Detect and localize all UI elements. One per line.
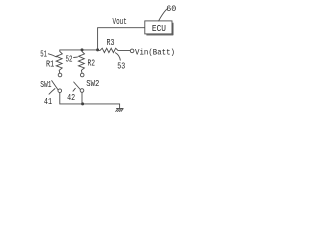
block ECU (60)	[145, 21, 172, 34]
switch SW2 arm	[74, 82, 81, 90]
ground	[116, 108, 124, 111]
svg-text:51: 51	[40, 49, 47, 59]
svg-text:ECU: ECU	[152, 24, 166, 34]
wire: vertical riser to Vout line and horizontal wire to ECU	[98, 28, 145, 50]
svg-text:R2: R2	[88, 59, 96, 69]
svg-text:42: 42	[67, 93, 75, 103]
svg-text:SW2: SW2	[86, 79, 99, 89]
junction dot R2 top	[81, 48, 84, 51]
resistor R1	[56, 50, 62, 73]
leader line 42	[73, 88, 75, 91]
svg-text:60: 60	[166, 4, 176, 14]
leader line 52	[74, 56, 78, 58]
resistor R3	[98, 48, 131, 52]
wire: top rail from R1 to junction	[60, 49, 98, 51]
switch SW1 top contact	[58, 73, 62, 77]
box ECU shadow	[147, 23, 173, 35]
resistor R2	[78, 50, 84, 73]
svg-text:R3: R3	[107, 38, 115, 48]
leader line 53	[115, 53, 120, 61]
wire: SW2 bottom lead	[81, 92, 83, 104]
svg-text:SW1: SW1	[40, 80, 51, 90]
switch SW1 bottom contact	[58, 89, 62, 93]
leader line 60	[159, 9, 167, 21]
leader line 51	[48, 54, 56, 57]
svg-text:Vout: Vout	[113, 17, 127, 27]
svg-text:52: 52	[66, 55, 73, 65]
switch SW1 arm	[52, 81, 59, 90]
junction dot bottom rail	[81, 102, 84, 105]
leader line 41	[49, 89, 55, 95]
svg-text:R1: R1	[46, 59, 54, 69]
svg-text:Vin(Batt): Vin(Batt)	[135, 47, 175, 57]
junction dot at Vout node	[96, 48, 99, 51]
terminal Vin(Batt)	[130, 49, 134, 53]
svg-text:41: 41	[44, 97, 52, 107]
wire: SW1 bottom lead and bottom rail to ground stem	[60, 93, 120, 109]
switch SW2 top contact	[80, 73, 84, 77]
switch SW2 bottom contact	[80, 89, 84, 93]
svg-text:53: 53	[117, 61, 125, 71]
